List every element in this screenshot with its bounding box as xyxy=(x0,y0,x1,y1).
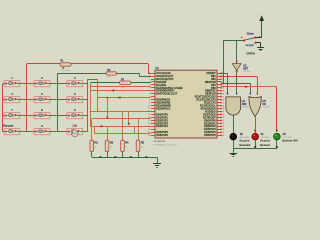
svg-text:40: 40 xyxy=(222,93,224,95)
button 9 xyxy=(67,112,83,118)
wire NOT output to AND xyxy=(236,72,238,94)
wire keypad row 1 xyxy=(2,83,7,85)
ground under LEDs xyxy=(230,149,238,157)
svg-text:24: 24 xyxy=(222,111,224,113)
wire mesh V5 R3 top xyxy=(107,126,109,140)
svg-text:Close: Close xyxy=(247,32,255,36)
wire R6 to U1 xyxy=(117,73,140,75)
pin left 6 xyxy=(149,87,183,90)
pin left 2 xyxy=(148,75,174,78)
svg-text:10k 0805: 10k 0805 xyxy=(60,70,70,72)
svg-text:Access: Access xyxy=(260,139,271,143)
wire U1 to LED D0 orange xyxy=(221,86,277,88)
wire AND output to LED D2 xyxy=(233,115,235,133)
svg-text:74LS08: 74LS08 xyxy=(242,106,250,108)
button 2 xyxy=(34,80,50,86)
svg-text:U3: U3 xyxy=(243,64,247,68)
pin right 17 xyxy=(204,119,224,122)
pin left 7 xyxy=(149,90,175,93)
button 6 xyxy=(67,96,83,102)
wire mesh H1 xyxy=(90,90,150,92)
pin right 4 xyxy=(205,81,224,84)
pin right 11 xyxy=(204,102,224,105)
wire keypad row 4 xyxy=(2,131,7,133)
pin right 18 xyxy=(204,122,224,125)
svg-text:7: 7 xyxy=(149,96,150,98)
LED D0 xyxy=(274,133,281,140)
button 1 xyxy=(4,80,20,86)
svg-text:10: 10 xyxy=(148,105,150,107)
svg-text:28: 28 xyxy=(222,135,224,137)
ground for resistor rail xyxy=(153,157,161,168)
pin left 21 xyxy=(148,131,169,134)
svg-text:R5: R5 xyxy=(141,141,145,145)
svg-text:15: 15 xyxy=(148,114,150,116)
svg-text:OPEN: OPEN xyxy=(246,52,255,56)
op-amp U1 microcontroller PIC16F877A xyxy=(155,70,217,138)
svg-text:16: 16 xyxy=(222,99,224,101)
pin right 8 xyxy=(205,93,224,96)
svg-text:74LS04: 74LS04 xyxy=(243,71,251,73)
pin left 11 xyxy=(149,102,171,105)
button 8 xyxy=(34,112,50,118)
svg-text:18: 18 xyxy=(148,123,150,125)
resistor R3 xyxy=(105,140,113,152)
wire resistor ground rail xyxy=(92,157,157,159)
pin right 3 xyxy=(211,78,224,81)
pin right 20 xyxy=(204,128,224,131)
svg-text:11: 11 xyxy=(148,108,150,110)
svg-text:R4: R4 xyxy=(125,141,129,145)
button OK xyxy=(67,128,83,134)
svg-text:Reset: Reset xyxy=(3,124,14,128)
wire mesh H3 xyxy=(90,111,150,113)
wire R5 bottom xyxy=(138,152,140,157)
svg-text:27: 27 xyxy=(222,132,224,134)
wire mesh V2 R2 top xyxy=(91,119,93,140)
wire MCLR red from keypad col1 to R1 xyxy=(27,63,60,65)
wire U1 to AND input L xyxy=(221,73,228,75)
svg-text:OK: OK xyxy=(72,124,77,128)
wire switch to ground xyxy=(256,42,260,44)
pin left 4 xyxy=(149,81,167,84)
svg-text:26: 26 xyxy=(148,135,150,137)
svg-text:U5: U5 xyxy=(262,99,266,103)
junction xyxy=(222,83,224,85)
svg-text:RE2/AN7/CS: RE2/AN7/CS xyxy=(156,107,170,110)
svg-text:25: 25 xyxy=(222,114,224,116)
wire mesh V3b xyxy=(107,98,109,117)
svg-text:8: 8 xyxy=(149,99,150,101)
pin left 18 xyxy=(148,122,169,125)
svg-text:25: 25 xyxy=(148,132,150,134)
resistor R5 xyxy=(136,140,144,152)
pin left 13 xyxy=(148,107,171,110)
wire mesh V8 R5 top xyxy=(138,119,140,140)
wire R7 to U1 xyxy=(131,82,151,84)
OR input dots xyxy=(250,93,252,95)
LED D2 xyxy=(230,133,237,140)
svg-text:23: 23 xyxy=(222,108,224,110)
button Reset xyxy=(4,128,20,134)
pin right 12 xyxy=(200,105,224,108)
button 4 xyxy=(4,96,20,102)
svg-text:sw-spdt: sw-spdt xyxy=(246,44,254,47)
svg-text:RD6/PSP6: RD6/PSP6 xyxy=(156,134,168,137)
pin right 19 xyxy=(204,125,224,128)
resistor R1 xyxy=(60,63,71,66)
pin right 7 xyxy=(205,90,224,93)
button 7 xyxy=(4,112,20,118)
svg-text:RD5/PSP5: RD5/PSP5 xyxy=(204,134,216,137)
wire mesh H6 xyxy=(95,133,151,135)
pin right 2 xyxy=(211,75,224,78)
wire U1 to OR input L xyxy=(221,83,250,85)
button 0 xyxy=(34,128,50,134)
pin left 17 xyxy=(148,119,169,122)
wire col3 top to mesh xyxy=(88,79,98,81)
svg-text:18: 18 xyxy=(222,105,224,107)
wire mesh V9 xyxy=(134,126,136,134)
resistor R7 xyxy=(120,81,132,84)
wire mesh V4 xyxy=(94,126,96,134)
wire R4 bottom xyxy=(122,152,124,157)
svg-text:22: 22 xyxy=(222,129,224,131)
wire mesh V6 R4 top xyxy=(122,112,124,141)
svg-text:RA4/T0CKI/C1OUT: RA4/T0CKI/C1OUT xyxy=(156,93,177,96)
svg-text:23: 23 xyxy=(148,126,150,128)
svg-text:RD4/PSP4: RD4/PSP4 xyxy=(156,125,168,128)
svg-text:U4: U4 xyxy=(242,99,246,103)
svg-text:26: 26 xyxy=(222,117,224,119)
pin right 16 xyxy=(203,116,224,119)
resistor R2 xyxy=(90,140,98,152)
svg-text:U1: U1 xyxy=(155,66,159,70)
pin right 6 xyxy=(211,87,224,90)
pin left 10 xyxy=(149,99,171,102)
wire R2 bottom xyxy=(91,152,93,157)
pin right 1 xyxy=(207,72,225,75)
svg-text:Granted: Granted xyxy=(239,143,250,147)
pin right 5 xyxy=(211,84,224,87)
pin left 22 xyxy=(148,134,169,137)
wire green R7 left leg xyxy=(90,82,119,84)
switch SW-SPDT xyxy=(241,36,261,44)
pin left 1 xyxy=(148,72,171,75)
svg-text:System ON: System ON xyxy=(282,139,297,143)
resistor R6 xyxy=(106,72,117,75)
wire keypad left rail xyxy=(2,84,4,132)
svg-text:15: 15 xyxy=(222,96,224,98)
pin left 8 xyxy=(149,93,178,96)
wire green R6 left xyxy=(57,73,106,75)
pin left 3 xyxy=(149,78,174,81)
pin right 13 xyxy=(201,107,225,110)
pin left 14 xyxy=(148,111,155,113)
svg-text:74LS32: 74LS32 xyxy=(262,106,270,108)
svg-text:20: 20 xyxy=(222,123,224,125)
svg-text:1: 1 xyxy=(149,79,150,81)
wire mesh H5 xyxy=(90,126,150,128)
svg-text:14: 14 xyxy=(148,76,150,78)
pin left 16 xyxy=(148,116,169,119)
svg-text:19: 19 xyxy=(222,120,224,122)
wire mesh H4 xyxy=(92,118,151,120)
pin right 15 xyxy=(203,113,224,116)
pin left 12 xyxy=(148,105,171,108)
junction dot xyxy=(107,97,109,99)
wire switch common down to U1 xyxy=(223,40,225,83)
wire mesh H2 xyxy=(98,97,151,99)
svg-text:5: 5 xyxy=(149,90,150,92)
NOT gate U3 xyxy=(232,64,241,72)
mouse cursor xyxy=(71,130,78,137)
ground under switch xyxy=(257,43,264,51)
R1 state dot xyxy=(62,67,64,69)
AND gate U4 xyxy=(226,97,241,115)
pin right 21 xyxy=(204,131,224,134)
wire keypad row 2 xyxy=(2,99,7,101)
wire keypad column 1 line xyxy=(26,64,28,132)
svg-text:R3: R3 xyxy=(110,141,114,145)
pin right 10 xyxy=(196,99,224,102)
wire mesh V3 xyxy=(97,98,99,112)
wire U1 to OR input R red xyxy=(221,76,257,78)
svg-text:39: 39 xyxy=(222,90,224,92)
OR gate U5 xyxy=(249,97,261,117)
wire mesh V7 xyxy=(128,112,130,124)
button 3 xyxy=(67,80,83,86)
power arrow xyxy=(259,15,264,37)
svg-text:17: 17 xyxy=(148,120,150,122)
wire keypad column 2 line green xyxy=(57,74,59,132)
wire OR output to LED D1 xyxy=(255,116,257,133)
svg-text:R2: R2 xyxy=(95,141,99,145)
AND input dots xyxy=(227,93,229,95)
svg-text:Access: Access xyxy=(239,139,250,143)
wire keypad row 3 xyxy=(2,115,7,117)
svg-text:17: 17 xyxy=(222,102,224,104)
svg-text:24: 24 xyxy=(148,129,150,131)
svg-text:9: 9 xyxy=(149,102,150,104)
wire LED rail xyxy=(233,140,235,149)
wire R3 bottom xyxy=(107,152,109,157)
pin left 15 xyxy=(148,113,169,116)
wire switch to power xyxy=(256,37,261,39)
wire R1 to U1 pin1 xyxy=(71,63,148,65)
pin left 20 xyxy=(148,129,155,131)
wire mesh V1 xyxy=(90,83,92,127)
svg-text:6: 6 xyxy=(149,93,150,95)
svg-text:12: 12 xyxy=(148,111,150,113)
svg-text:21: 21 xyxy=(222,126,224,128)
svg-text:PROGRAM=DoorLock.hex: PROGRAM=DoorLock.hex xyxy=(153,144,177,147)
wire switch common xyxy=(223,40,244,42)
wire keypad column 3 line xyxy=(87,79,89,132)
svg-text:3: 3 xyxy=(149,85,150,87)
NOT input dot xyxy=(236,61,238,63)
button 5 xyxy=(34,96,50,102)
svg-text:2: 2 xyxy=(149,82,150,84)
pin left 5 xyxy=(149,84,167,87)
svg-text:13: 13 xyxy=(148,73,150,75)
LED D1 xyxy=(252,133,259,140)
svg-text:16: 16 xyxy=(148,117,150,119)
svg-text:4: 4 xyxy=(149,88,150,90)
svg-text:38: 38 xyxy=(222,88,224,90)
pin right 9 xyxy=(195,96,225,99)
pin right 22 xyxy=(204,134,224,137)
wire to NOT input xyxy=(236,40,238,61)
wire mesh H0 xyxy=(90,86,150,88)
pin right 14 xyxy=(205,110,224,113)
resistor R4 xyxy=(121,140,129,152)
pin left 9 xyxy=(149,96,155,98)
svg-text:PIC16F877A: PIC16F877A xyxy=(153,140,165,143)
svg-text:Denied: Denied xyxy=(260,143,270,147)
pin left 19 xyxy=(148,125,169,128)
